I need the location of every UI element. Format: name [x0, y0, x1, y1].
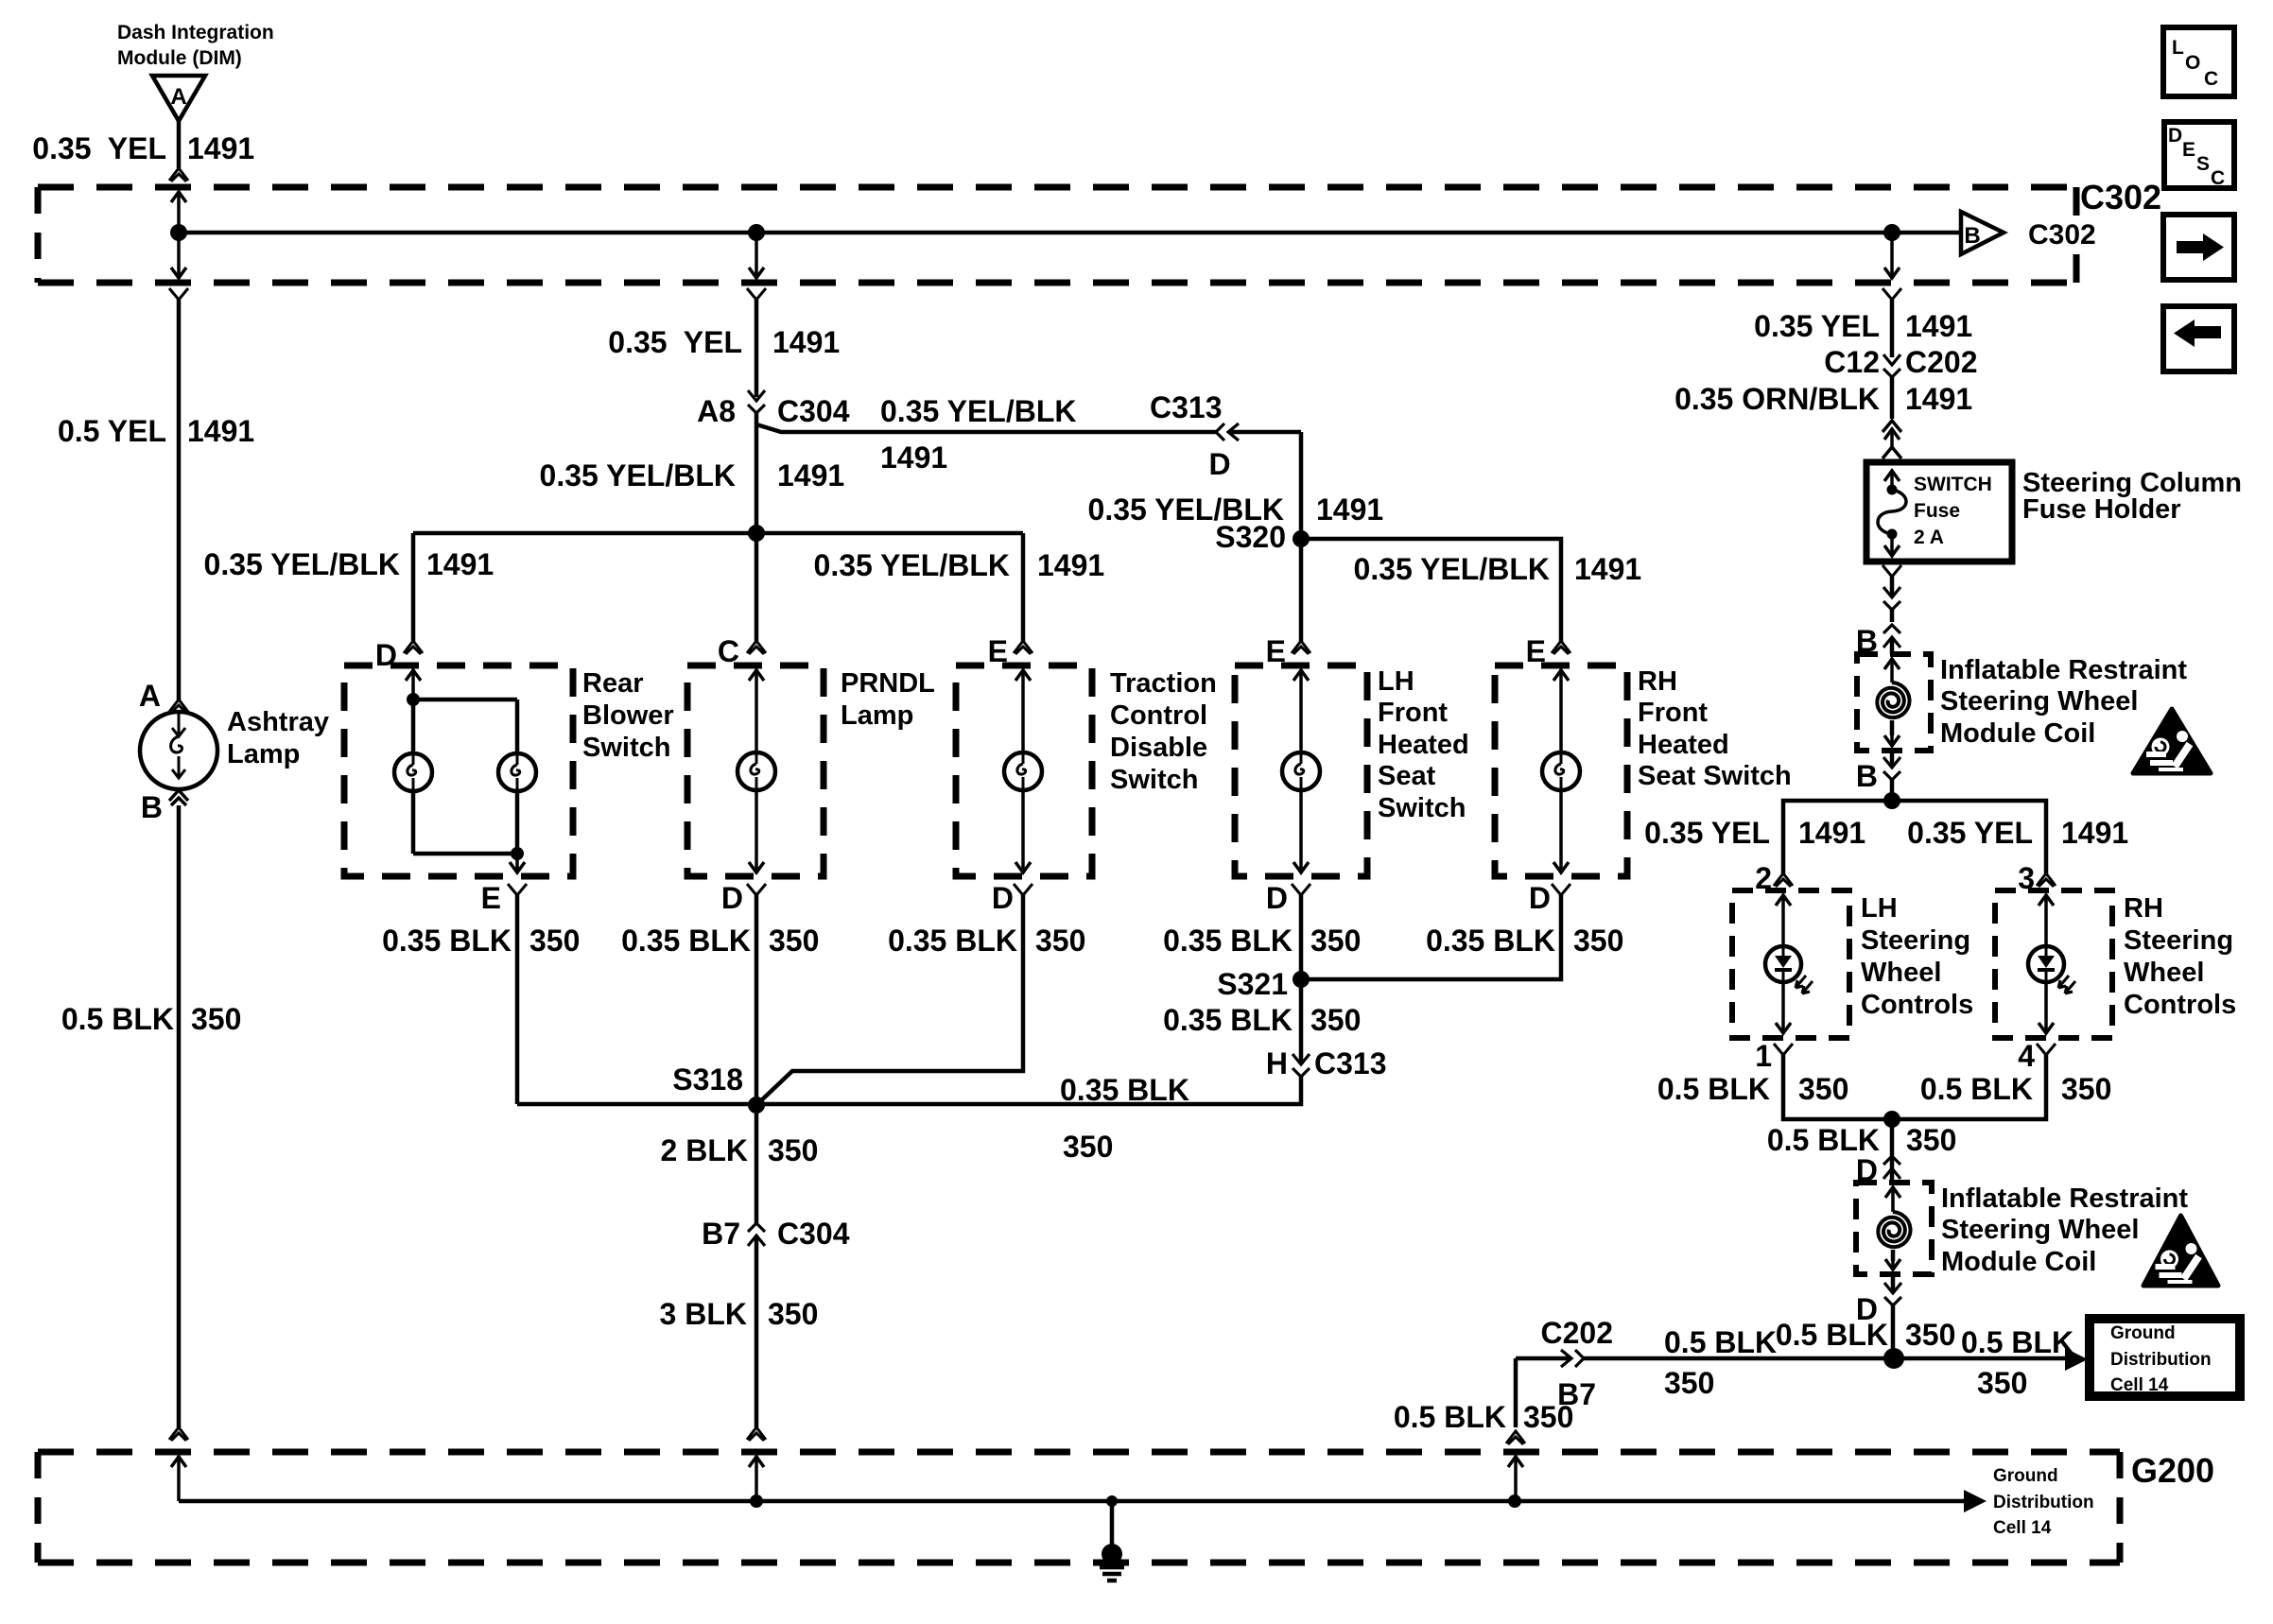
svg-text:B: B — [1856, 759, 1878, 793]
pin glyph D below traction box — [1014, 884, 1032, 895]
wire 0.35 BLK 350 from rear blower E — [515, 895, 520, 1104]
component box RH Front Heated Seat Switch — [1495, 665, 1627, 876]
svg-text:0.5 BLK: 0.5 BLK — [1776, 1318, 1888, 1352]
svg-text:350: 350 — [1664, 1366, 1714, 1400]
svg-text:Disable: Disable — [1110, 733, 1207, 763]
svg-text:350: 350 — [1310, 1003, 1361, 1037]
RH heated seat internal feed arrow — [1553, 670, 1569, 681]
warning triangle airbag (lower) — [2143, 1216, 2218, 1286]
wire S321 to RH heated seat D — [1301, 895, 1561, 979]
svg-text:C12: C12 — [1824, 345, 1880, 379]
component box LH Steering Wheel Controls — [1732, 890, 1849, 1038]
svg-text:Fuse Holder: Fuse Holder — [2022, 494, 2181, 525]
svg-text:LH: LH — [1378, 666, 1414, 697]
svg-text:Cell 14: Cell 14 — [1993, 1518, 2052, 1538]
connector triangle A (to DIM) — [152, 76, 205, 121]
ground G200 dashed box — [38, 1449, 2120, 1456]
wire branch line to rear blower and traction switches — [413, 531, 1023, 536]
G200 internal bus — [179, 1499, 1980, 1504]
legend box LOC — [2163, 27, 2234, 96]
svg-text:A8: A8 — [697, 394, 736, 428]
svg-text:350: 350 — [1035, 924, 1085, 958]
pin glyph D below RH heated seat box — [1552, 884, 1570, 895]
svg-text:Controls: Controls — [1861, 990, 1973, 1020]
svg-text:C: C — [2211, 167, 2225, 189]
wire C313 H down to S318 line — [756, 1077, 1301, 1104]
LH controls internal exit arrow — [1776, 1023, 1791, 1033]
svg-text:C313: C313 — [1314, 1046, 1387, 1080]
G200 internal arrow B7 — [1508, 1457, 1523, 1467]
wire C313 branch down to S320 — [1299, 432, 1304, 539]
svg-text:Cell 14: Cell 14 — [2110, 1375, 2169, 1395]
component box RH Steering Wheel Controls — [1995, 890, 2112, 1038]
node G200 ground stub junction — [1106, 1495, 1118, 1507]
LED RH steering wheel controls — [2028, 946, 2064, 982]
svg-text:0.5 BLK: 0.5 BLK — [1767, 1123, 1880, 1157]
svg-text:D: D — [1208, 447, 1230, 481]
node junction right on C302 bus — [1883, 224, 1900, 241]
svg-text:Switch: Switch — [1110, 765, 1198, 795]
svg-text:Front: Front — [1638, 698, 1708, 728]
svg-text:S318: S318 — [672, 1063, 743, 1097]
svg-text:0.5 BLK: 0.5 BLK — [1664, 1325, 1777, 1359]
svg-text:0.35 YEL/BLK: 0.35 YEL/BLK — [1354, 552, 1550, 586]
component box PRNDL Lamp — [687, 665, 824, 876]
svg-text:350: 350 — [1573, 924, 1623, 958]
PRNDL internal feed arrow — [749, 670, 764, 681]
svg-text:Module Coil: Module Coil — [1940, 718, 2095, 749]
pin glyph E at LH heated seat box — [1292, 641, 1310, 654]
LED LH steering wheel controls — [1765, 946, 1801, 982]
component box Inflatable Restraint Steering Wheel Module Coil (upper) — [1857, 654, 1931, 751]
pin arrow into C302 at left — [171, 192, 186, 202]
svg-text:0.35 BLK: 0.35 BLK — [1163, 1003, 1293, 1037]
svg-text:D: D — [1529, 881, 1551, 915]
svg-text:0.35 YEL: 0.35 YEL — [1644, 816, 1770, 850]
svg-text:D: D — [1266, 881, 1288, 915]
wire 0.35 YEL 1491 from DIM triangle to C302 — [177, 121, 182, 168]
svg-text:1491: 1491 — [187, 131, 254, 165]
G200 internal arrow left — [171, 1457, 186, 1467]
svg-text:1491: 1491 — [880, 441, 947, 475]
pin glyph E at RH heated seat box — [1552, 641, 1570, 654]
svg-text:B7: B7 — [702, 1217, 740, 1251]
svg-text:350: 350 — [1906, 1123, 1956, 1157]
svg-text:Ground: Ground — [2110, 1323, 2176, 1343]
wire 0.35 YEL 1491 right — [1890, 300, 1895, 357]
svg-text:1491: 1491 — [2061, 816, 2128, 850]
rear blower internal junction 2 — [511, 847, 524, 860]
connector glyph below C302 at left column — [169, 288, 188, 300]
wire S320 to RH heated seat column — [1301, 539, 1561, 641]
svg-text:Steering Wheel: Steering Wheel — [1940, 686, 2139, 717]
connector glyph below C302 at middle column — [747, 288, 766, 300]
svg-text:L: L — [2172, 37, 2184, 59]
fuse internal exit arrow — [1884, 545, 1900, 556]
svg-text:Controls: Controls — [2124, 990, 2236, 1020]
svg-text:1491: 1491 — [1905, 382, 1972, 416]
svg-text:1491: 1491 — [187, 414, 254, 448]
svg-text:0.35 YEL/BLK: 0.35 YEL/BLK — [814, 548, 1010, 582]
wire S321 down to C313 H — [1299, 979, 1304, 1064]
svg-text:Heated: Heated — [1378, 730, 1469, 760]
component box Inflatable Restraint Steering Wheel Module Coil (lower) — [1856, 1183, 1932, 1274]
rear blower internal exit arrow — [510, 862, 525, 872]
wire S318 down — [755, 1105, 759, 1223]
svg-text:0.5 BLK: 0.5 BLK — [1657, 1072, 1770, 1106]
svg-text:0.5 BLK: 0.5 BLK — [61, 1002, 174, 1036]
node junction middle on C302 bus — [748, 224, 765, 241]
pin chevrons D below lower SIR coil — [1891, 1274, 1896, 1293]
svg-text:G200: G200 — [2131, 1451, 2214, 1490]
svg-text:0.35 YEL: 0.35 YEL — [32, 131, 166, 165]
svg-text:350: 350 — [1977, 1366, 2027, 1400]
wire B7 down to G200 — [1514, 1358, 1518, 1427]
RH heated seat lamp — [1542, 752, 1580, 790]
svg-text:C313: C313 — [1150, 390, 1223, 424]
svg-text:A: A — [139, 679, 161, 713]
svg-text:0.35 BLK: 0.35 BLK — [1426, 924, 1555, 958]
svg-text:350: 350 — [769, 924, 819, 958]
pin glyph 1 below LH controls box — [1774, 1044, 1793, 1055]
svg-text:B: B — [1964, 223, 1980, 249]
traction internal feed arrow — [1015, 670, 1031, 681]
svg-text:C202: C202 — [1905, 345, 1978, 379]
svg-text:Switch: Switch — [582, 733, 670, 763]
svg-text:Dash Integration: Dash Integration — [117, 22, 274, 43]
LH heated seat lamp — [1282, 752, 1320, 790]
SIR coil symbol upper — [1884, 659, 1900, 669]
svg-text:S321: S321 — [1217, 967, 1288, 1001]
node join steering wheel returns — [1883, 1111, 1900, 1128]
svg-text:C: C — [2204, 68, 2218, 90]
pin glyph B below ashtray lamp — [169, 790, 188, 805]
wire 2 BLK 350 PRNDL to S318 — [755, 895, 759, 1105]
svg-text:350: 350 — [529, 924, 580, 958]
splice node B to steering wheel controls — [1883, 792, 1900, 809]
rear blower internal left stem — [411, 700, 416, 753]
component box Ground Distribution Cell 14 — [2090, 1319, 2240, 1396]
connector glyph at G200 boundary B7 leg — [1506, 1431, 1525, 1444]
connector glyph at C302 top boundary — [169, 168, 188, 181]
node G200 bus middle — [750, 1494, 763, 1508]
wire branch to C313 (horizontal) — [756, 424, 1216, 432]
svg-text:0.35 YEL: 0.35 YEL — [1907, 816, 2033, 850]
wire 0.5 BLK 350 from ashtray lamp to G200 — [177, 805, 182, 1427]
svg-text:2 BLK: 2 BLK — [661, 1133, 748, 1167]
svg-text:Ground: Ground — [1993, 1466, 2058, 1486]
svg-text:C304: C304 — [777, 1217, 850, 1251]
svg-text:0.5 YEL: 0.5 YEL — [58, 414, 166, 448]
svg-text:O: O — [2185, 52, 2200, 74]
legend box DESC — [2164, 122, 2234, 188]
svg-text:0.35 BLK: 0.35 BLK — [888, 924, 1017, 958]
svg-text:350: 350 — [191, 1002, 241, 1036]
inline connector glyphs above fuse holder — [1883, 421, 1901, 432]
svg-text:Seat Switch: Seat Switch — [1638, 761, 1792, 791]
svg-text:Inflatable Restraint: Inflatable Restraint — [1940, 655, 2187, 685]
svg-text:Steering Wheel: Steering Wheel — [1941, 1215, 2140, 1245]
pin glyph 3 at RH controls box — [2037, 873, 2056, 887]
svg-text:0.5 BLK: 0.5 BLK — [1920, 1072, 2033, 1106]
svg-text:Wheel: Wheel — [1861, 958, 1941, 988]
node junction left on C302 bus — [170, 224, 187, 241]
svg-text:350: 350 — [1905, 1318, 1955, 1352]
svg-text:PRNDL: PRNDL — [841, 668, 935, 699]
legend box left-arrow — [2163, 306, 2234, 371]
wire down to lower SIR coil — [1890, 1119, 1895, 1168]
PRNDL internal exit arrow — [749, 862, 764, 872]
pin glyph E at traction box — [1014, 641, 1032, 654]
svg-text:350: 350 — [768, 1133, 818, 1167]
svg-text:350: 350 — [768, 1297, 818, 1331]
rear blower internal feed arrow — [406, 670, 421, 681]
svg-text:Module Coil: Module Coil — [1941, 1247, 2096, 1277]
svg-text:0.35 YEL/BLK: 0.35 YEL/BLK — [540, 458, 736, 492]
pin glyph A at ashtray lamp — [169, 700, 188, 713]
pin chevrons B below SIR coil — [1890, 751, 1895, 768]
svg-text:1491: 1491 — [1316, 492, 1383, 527]
pin arrow down from C302 bus middle — [749, 268, 764, 278]
arrowhead ground distribution inside G200 — [1964, 1490, 1987, 1512]
svg-text:350: 350 — [1310, 924, 1361, 958]
svg-text:D: D — [2168, 125, 2182, 147]
wire horizontal to ground distribution — [1516, 1356, 1571, 1361]
svg-text:1491: 1491 — [1574, 552, 1641, 586]
pin glyph C at PRNDL box — [747, 641, 766, 654]
svg-text:C302: C302 — [2080, 178, 2161, 216]
svg-text:0.5 BLK: 0.5 BLK — [1961, 1325, 2073, 1359]
svg-text:0.35 BLK: 0.35 BLK — [382, 924, 512, 958]
svg-text:RH: RH — [1638, 666, 1677, 697]
wire 0.35 YEL/BLK below C304 — [755, 413, 759, 533]
svg-text:Steering: Steering — [1861, 925, 1970, 956]
svg-text:RH: RH — [2124, 893, 2163, 924]
fuse element SWITCH Fuse 2A — [1887, 485, 1898, 495]
svg-text:Blower: Blower — [582, 700, 674, 731]
svg-text:1: 1 — [1755, 1039, 1772, 1073]
connector glyphs below fuse holder — [1883, 565, 1901, 577]
svg-text:1491: 1491 — [1798, 816, 1865, 850]
ground symbol G200 — [1110, 1501, 1115, 1550]
node junction ground wires — [1883, 1348, 1904, 1369]
connector glyph at G200 boundary left — [169, 1427, 188, 1441]
svg-text:1491: 1491 — [426, 547, 494, 581]
svg-text:LH: LH — [1861, 893, 1898, 924]
svg-text:0.35 ORN/BLK: 0.35 ORN/BLK — [1674, 382, 1880, 416]
pin glyph E below rear blower box — [508, 884, 527, 895]
node G200 bus B7 — [1508, 1494, 1521, 1508]
svg-text:S320: S320 — [1215, 520, 1286, 554]
connector triangle B C302 (to another page) — [1961, 212, 2004, 254]
wire 0.35 ORN/BLK 1491 — [1890, 377, 1895, 419]
wire rear blower feed — [411, 533, 416, 641]
node branch junction at middle column — [748, 525, 765, 542]
svg-text:350: 350 — [1523, 1400, 1573, 1434]
svg-text:0.35 BLK: 0.35 BLK — [1163, 924, 1293, 958]
svg-text:Front: Front — [1378, 698, 1448, 728]
pin glyph D below PRNDL box — [747, 884, 766, 895]
svg-text:0.35 BLK: 0.35 BLK — [621, 924, 751, 958]
svg-text:Distribution: Distribution — [1993, 1493, 2094, 1512]
pin glyph D at rear blower box — [404, 641, 423, 654]
svg-text:Wheel: Wheel — [2124, 958, 2204, 988]
svg-text:1491: 1491 — [777, 458, 844, 492]
rear blower internal top wire — [413, 698, 517, 702]
wire split to LH/RH steering wheel controls — [1783, 801, 2046, 873]
pin chevrons D into lower SIR coil — [1883, 1156, 1900, 1179]
rear blower lamp 2 — [498, 753, 536, 791]
svg-text:0.35 YEL/BLK: 0.35 YEL/BLK — [880, 394, 1076, 428]
svg-text:B: B — [141, 790, 163, 824]
rear blower lamp 1 — [394, 753, 432, 791]
component box Steering Column Fuse Holder — [1866, 462, 2012, 561]
wire 0.5 YEL 1491 to ashtray lamp — [177, 300, 182, 700]
connector glyph at G200 boundary middle — [747, 1427, 766, 1441]
wire 0.35 BLK 350 LH heated seat to S321 — [1299, 895, 1304, 979]
LH heated seat internal feed arrow — [1293, 670, 1309, 681]
svg-text:A: A — [170, 84, 186, 110]
traction lamp — [1004, 752, 1042, 790]
RH controls internal exit arrow — [2039, 1023, 2054, 1033]
svg-text:350: 350 — [1063, 1130, 1113, 1164]
component box Traction Control Disable Switch — [956, 665, 1092, 876]
svg-text:0.35 YEL: 0.35 YEL — [1754, 309, 1880, 343]
connector C302 dashed box — [38, 184, 2076, 191]
PRNDL lamp — [737, 752, 775, 790]
wire 0.5 BLK 350 join from controls — [1783, 1055, 2046, 1119]
svg-text:Seat: Seat — [1378, 761, 1436, 791]
svg-text:0.5 BLK: 0.5 BLK — [1394, 1400, 1506, 1434]
svg-text:1491: 1491 — [1905, 309, 1972, 343]
G200 internal arrow middle — [749, 1457, 764, 1467]
C302 internal bus wire — [179, 231, 1961, 235]
connector glyph below C302 at right column — [1883, 288, 1901, 300]
wire S318 collector line — [517, 1102, 756, 1107]
svg-text:Traction: Traction — [1110, 668, 1217, 699]
svg-text:2 A: 2 A — [1914, 527, 1944, 548]
svg-text:0.35 YEL/BLK: 0.35 YEL/BLK — [204, 547, 400, 581]
pin glyph 4 below RH controls box — [2037, 1044, 2056, 1055]
svg-text:D: D — [992, 881, 1014, 915]
rear blower internal junction — [407, 693, 420, 706]
arrowhead into ground distribution box — [2065, 1348, 2088, 1371]
svg-text:SWITCH: SWITCH — [1914, 474, 1992, 495]
legend box right-arrow — [2163, 215, 2234, 280]
component box Rear Blower Switch — [344, 665, 573, 876]
pin arrow down from C302 bus at left — [171, 268, 186, 278]
svg-text:1491: 1491 — [1037, 548, 1104, 582]
wire PRNDL feed down — [755, 533, 759, 641]
svg-text:350: 350 — [1798, 1072, 1848, 1106]
svg-text:0.35 BLK: 0.35 BLK — [1060, 1073, 1189, 1107]
svg-text:Inflatable Restraint: Inflatable Restraint — [1941, 1183, 2188, 1214]
fuse internal feed arrow — [1884, 471, 1900, 481]
svg-text:Steering: Steering — [2124, 925, 2233, 956]
pin arrow down from C302 bus right — [1884, 268, 1900, 278]
LH heated seat internal exit arrow — [1293, 862, 1309, 872]
pin chevrons B into SIR coil — [1883, 625, 1900, 648]
svg-text:0.35 YEL: 0.35 YEL — [608, 325, 742, 359]
svg-text:S: S — [2196, 153, 2210, 175]
svg-text:Heated: Heated — [1638, 730, 1729, 760]
traction internal exit arrow — [1015, 862, 1031, 872]
svg-text:Distribution: Distribution — [2110, 1350, 2212, 1370]
svg-text:Lamp: Lamp — [841, 700, 913, 731]
svg-text:C302: C302 — [2028, 219, 2096, 251]
svg-text:Rear: Rear — [582, 668, 644, 699]
SIR coil symbol lower — [1885, 1187, 1900, 1198]
wire 0.35 YEL 1491 middle — [755, 300, 759, 397]
svg-text:Switch: Switch — [1378, 793, 1466, 823]
warning triangle airbag (upper) — [2133, 709, 2211, 773]
svg-text:3 BLK: 3 BLK — [660, 1297, 747, 1331]
RH heated seat internal exit arrow — [1553, 862, 1569, 872]
pin glyph 2 at LH controls box — [1774, 873, 1793, 887]
svg-text:D: D — [721, 881, 743, 915]
lamp Ashtray Lamp — [140, 712, 217, 789]
wire traction feed — [1021, 533, 1026, 641]
rear blower internal right stem — [515, 700, 520, 753]
svg-text:E: E — [481, 881, 501, 915]
svg-text:Lamp: Lamp — [227, 739, 300, 769]
svg-text:Module (DIM): Module (DIM) — [117, 47, 242, 69]
pin glyph D below LH heated seat box — [1292, 884, 1310, 895]
LH controls internal feed arrow — [1776, 895, 1791, 906]
RH controls internal feed arrow — [2039, 895, 2054, 906]
rear blower internal bottom wire — [413, 852, 517, 856]
svg-text:E: E — [2182, 139, 2195, 161]
svg-text:4: 4 — [2018, 1039, 2035, 1073]
wire LH heated seat feed — [1299, 539, 1304, 641]
svg-text:C202: C202 — [1541, 1316, 1614, 1350]
svg-text:Control: Control — [1110, 700, 1207, 731]
svg-text:350: 350 — [2061, 1072, 2111, 1106]
svg-text:Ashtray: Ashtray — [227, 707, 329, 737]
svg-text:C304: C304 — [777, 394, 850, 428]
wire 3 BLK 350 down to G200 — [755, 1235, 759, 1427]
svg-text:Fuse: Fuse — [1914, 500, 1960, 522]
wire 0.35 BLK 350 traction to S318 — [756, 895, 1023, 1105]
component box LH Front Heated Seat Switch — [1235, 665, 1367, 876]
svg-text:1491: 1491 — [772, 325, 840, 359]
svg-text:H: H — [1266, 1046, 1288, 1080]
